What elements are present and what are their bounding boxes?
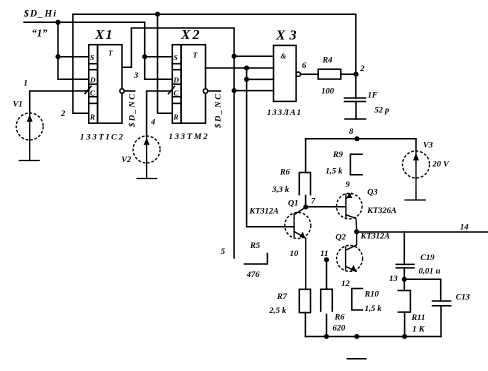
svg-text:12: 12 bbox=[341, 278, 350, 288]
wire $D_Hi rail bbox=[24, 21, 145, 23]
node 11 stub to R8 bbox=[324, 257, 329, 262]
svg-text:&: & bbox=[281, 51, 287, 60]
svg-text:$D_NC: $D_NC bbox=[127, 94, 137, 128]
svg-text:133TM2: 133TM2 bbox=[169, 131, 209, 141]
svg-text:13: 13 bbox=[389, 273, 398, 283]
wire X1 S/D drop bbox=[57, 22, 59, 79]
svg-text:2,5 k: 2,5 k bbox=[268, 305, 287, 315]
resistor R10 bracket bbox=[352, 289, 363, 311]
svg-text:0,01 u: 0,01 u bbox=[419, 266, 441, 276]
wire X1 C from V1 bbox=[30, 91, 89, 113]
node junction dot top rail to X2 R bbox=[155, 12, 160, 17]
resistor R4 bbox=[318, 69, 356, 79]
svg-text:3: 3 bbox=[133, 70, 139, 80]
svg-text:4: 4 bbox=[150, 117, 155, 127]
svg-text:1 К: 1 К bbox=[412, 323, 425, 333]
capacitor C1 bbox=[345, 97, 366, 99]
svg-text:20 V: 20 V bbox=[432, 158, 451, 168]
node junction dot $D_Hi to X1 S/D bbox=[56, 20, 61, 25]
wire top rail node 2 net bbox=[73, 13, 356, 15]
svg-text:X2: X2 bbox=[180, 28, 200, 43]
svg-text:КТ312А: КТ312А bbox=[360, 231, 391, 241]
resistor R5 bracket bbox=[244, 254, 267, 265]
wire X2 C from V2 bbox=[147, 91, 173, 136]
svg-text:100: 100 bbox=[321, 86, 335, 96]
svg-text:R9: R9 bbox=[332, 149, 344, 159]
ground below C1 bbox=[345, 118, 366, 120]
svg-text:R11: R11 bbox=[411, 312, 426, 322]
svg-text:X1: X1 bbox=[94, 28, 113, 43]
svg-text:R7: R7 bbox=[276, 291, 288, 301]
svg-text:Q3: Q3 bbox=[367, 186, 378, 196]
svg-text:C19: C19 bbox=[420, 252, 435, 262]
wire X3 input 4 bbox=[234, 90, 273, 92]
wire X2 S/D drop bbox=[144, 22, 146, 79]
svg-text:T: T bbox=[193, 51, 198, 60]
wire X1 Q output to X3 inputs bbox=[122, 28, 234, 258]
svg-text:11: 11 bbox=[320, 248, 328, 258]
svg-text:1,5 k: 1,5 k bbox=[365, 303, 383, 313]
NAND gate X3 bbox=[274, 45, 319, 101]
svg-text:14: 14 bbox=[460, 221, 469, 231]
svg-text:$D_Hi: $D_Hi bbox=[23, 9, 56, 20]
resistor R7 bbox=[299, 289, 310, 336]
svg-text:C13: C13 bbox=[456, 292, 471, 302]
svg-text:S: S bbox=[174, 53, 178, 62]
svg-text:52 p: 52 p bbox=[374, 104, 389, 114]
svg-text:S: S bbox=[90, 53, 94, 62]
svg-text:“1”: “1” bbox=[32, 28, 48, 39]
node junction dot X3 input 4 bbox=[232, 88, 237, 93]
svg-text:476: 476 bbox=[246, 269, 260, 279]
wire node 8 rail bbox=[299, 136, 416, 207]
flip-flop X1 bbox=[85, 45, 135, 124]
wire X3 input 3 branch down to Q1 base bbox=[247, 68, 295, 227]
transistor Q2 bbox=[337, 232, 363, 272]
svg-text:R10: R10 bbox=[364, 289, 380, 299]
svg-text:D: D bbox=[89, 75, 96, 84]
wire X1 R from top rail bbox=[73, 14, 89, 113]
svg-text:10: 10 bbox=[290, 248, 299, 258]
node junction dot X2 S bbox=[142, 54, 147, 59]
svg-text:1: 1 bbox=[24, 78, 28, 88]
node junction dot X1 S bbox=[56, 54, 61, 59]
svg-text:2: 2 bbox=[60, 108, 66, 118]
wire node 14 rail bbox=[357, 231, 488, 233]
svg-text:R: R bbox=[173, 112, 179, 121]
current source V2 bbox=[133, 136, 160, 179]
svg-text:V1: V1 bbox=[13, 99, 23, 109]
svg-text:D: D bbox=[173, 75, 180, 84]
svg-text:1,5 k: 1,5 k bbox=[326, 166, 344, 176]
wire to V3 bbox=[415, 139, 417, 151]
svg-text:2: 2 bbox=[359, 63, 365, 73]
node junction dot net 5 bbox=[244, 66, 249, 71]
resistor R9 bracket bbox=[350, 154, 362, 175]
wire Q1 collector node 7 to Q3 base bbox=[306, 206, 346, 208]
wire to R6 bbox=[305, 139, 307, 173]
svg-text:V2: V2 bbox=[121, 154, 132, 164]
svg-text:КТ312А: КТ312А bbox=[248, 205, 279, 215]
wire node 2 vertical bbox=[345, 14, 366, 119]
wire X2 R from top rail bbox=[158, 14, 173, 113]
svg-text:R6: R6 bbox=[334, 312, 346, 322]
voltage source V3 bbox=[403, 151, 430, 200]
svg-text:1F: 1F bbox=[368, 89, 378, 99]
node junction dot X3 input 1 bbox=[232, 54, 237, 59]
flip-flop X2 bbox=[169, 45, 221, 124]
ground dash bottom bbox=[347, 358, 366, 360]
node 2 junction dot bbox=[354, 72, 359, 77]
svg-text:R4: R4 bbox=[322, 55, 333, 65]
wire bottom rail bbox=[305, 336, 441, 338]
resistor R8 open-bottom box bbox=[321, 289, 333, 336]
svg-text:3,3 k: 3,3 k bbox=[271, 184, 290, 194]
wire X2 Q output to X3 input 2 bbox=[206, 67, 274, 69]
current source V1 bbox=[16, 113, 43, 161]
svg-text:620: 620 bbox=[333, 323, 347, 333]
resistor R11 open-left box bbox=[398, 291, 410, 337]
svg-text:T: T bbox=[108, 50, 113, 58]
capacitor C13 bbox=[433, 301, 451, 337]
transistor Q1 bbox=[285, 207, 311, 289]
svg-text:R5: R5 bbox=[249, 240, 261, 250]
wire X3 output to R4 bbox=[301, 73, 319, 75]
transistor Q3 bbox=[337, 193, 363, 230]
svg-text:R: R bbox=[89, 112, 95, 121]
resistor R6 open-bottom box bbox=[299, 173, 310, 195]
wire node 13 branch and capacitor C19 bbox=[396, 232, 441, 301]
svg-text:Q1: Q1 bbox=[288, 197, 298, 207]
svg-text:V3: V3 bbox=[423, 140, 434, 150]
svg-text:133ЛА1: 133ЛА1 bbox=[267, 107, 301, 117]
svg-text:R6: R6 bbox=[279, 167, 291, 177]
svg-text:КТ326А: КТ326А bbox=[366, 205, 397, 215]
wire X3 input 1 bbox=[234, 55, 273, 57]
svg-text:5: 5 bbox=[221, 246, 226, 256]
svg-text:Q2: Q2 bbox=[336, 232, 347, 242]
